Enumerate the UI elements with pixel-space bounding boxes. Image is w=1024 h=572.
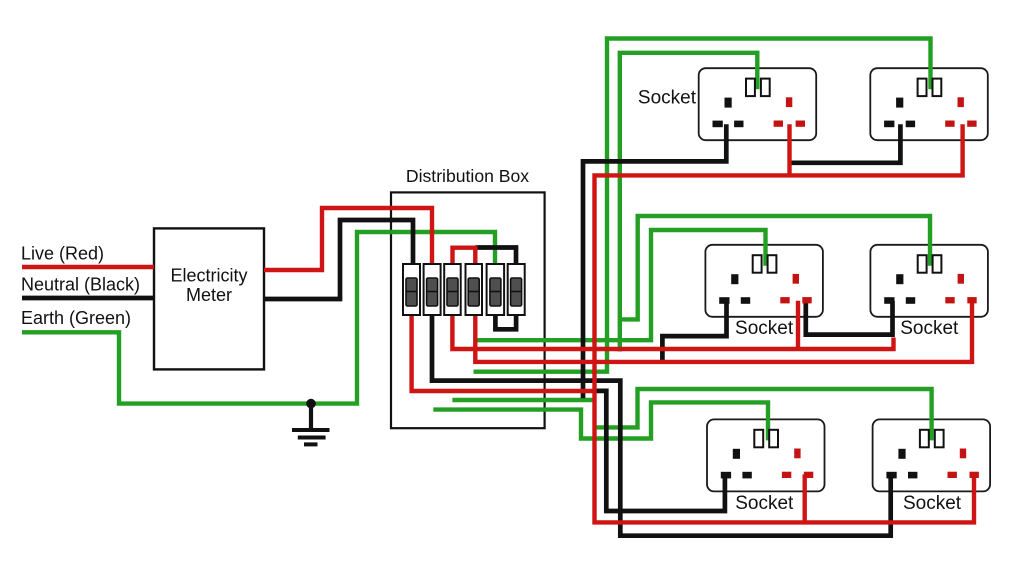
wire neutral socket S3 drop	[662, 301, 726, 362]
socket S2 row1 right box	[870, 68, 988, 140]
wire neutral row2 daisy to socket S4	[806, 301, 893, 335]
socket S6 row3 right box	[873, 419, 991, 491]
wire neutral row1 riser to socket S1	[583, 124, 726, 398]
electricity meter box	[154, 228, 264, 369]
svg-text:Meter: Meter	[186, 285, 232, 305]
wire live socket S3 drop	[796, 301, 800, 349]
socket S5 row3 left box	[707, 419, 825, 491]
wire live trunk row1 to row3	[595, 124, 975, 522]
socket S2 internals	[884, 79, 977, 128]
wire live F4 bottom to socket S4 (RED-B)	[475, 301, 972, 362]
wire live from label	[22, 265, 154, 269]
wire live socket S5 drop	[803, 474, 807, 523]
breaker F4	[466, 264, 483, 315]
wire neutral U loop F5-F6 bottoms	[495, 315, 516, 329]
socket S1 row1 left box	[699, 68, 817, 140]
ground symbol	[292, 404, 330, 445]
svg-text:Socket: Socket	[735, 493, 794, 514]
svg-text:Socket: Socket	[900, 318, 959, 339]
wire earth feed row2 inner (GREEN-A)	[477, 230, 766, 340]
wire earth row2 outer	[620, 216, 930, 319]
breaker F3	[444, 264, 461, 315]
socket S3 row2 left box	[705, 245, 823, 317]
socket S3 internals	[719, 255, 812, 304]
breaker F2	[424, 264, 441, 315]
wire earth from label through ground to breaker F5	[22, 232, 495, 404]
socket S5 internals	[721, 430, 814, 479]
wire neutral F2 bottom to row3 sockets	[432, 315, 891, 536]
svg-text:Socket: Socket	[903, 493, 962, 514]
wire neutral row3 socket S5 drop	[597, 391, 725, 511]
svg-text:Neutral (Black): Neutral (Black)	[21, 275, 140, 295]
wire live jumper F3 to F4	[453, 248, 476, 264]
socket S1 internals	[713, 79, 806, 128]
wire earth row3 inner (GREEN-D)	[433, 402, 768, 440]
socket S4 internals	[884, 255, 977, 304]
wire neutral jumper F4 to F6	[475, 248, 516, 265]
wire neutral row1 daisy to socket S2	[790, 124, 901, 163]
socket S6 internals	[886, 430, 979, 479]
svg-text:Electricity: Electricity	[170, 266, 247, 286]
breaker F5	[487, 264, 505, 315]
junction dot earth node	[306, 399, 316, 409]
distribution box	[391, 192, 545, 428]
wire earth row3 outer	[597, 389, 932, 440]
svg-text:Socket: Socket	[735, 318, 794, 339]
svg-text:Distribution Box: Distribution Box	[406, 166, 529, 186]
wire earth row1 outer (GREEN-B)	[474, 39, 931, 372]
wire live socket S1 drop	[787, 124, 791, 175]
wire live meter to breaker F2	[264, 208, 432, 270]
svg-text:Socket: Socket	[638, 87, 697, 108]
wire earth row1 inner	[620, 53, 758, 352]
wire neutral from label	[22, 296, 154, 301]
wire live F3 bottom row2 (RED-A)	[452, 315, 893, 349]
svg-text:Earth (Green): Earth (Green)	[21, 308, 131, 328]
wire neutral meter to breaker F1	[264, 220, 413, 299]
svg-text:Live (Red): Live (Red)	[21, 244, 104, 264]
breaker F1	[403, 264, 420, 315]
wire live F1 bottom (RED-C)	[412, 315, 595, 391]
socket S4 row2 right box	[870, 245, 988, 317]
breaker F6	[508, 264, 525, 315]
wire earth stub (GREEN-C)	[452, 398, 596, 402]
